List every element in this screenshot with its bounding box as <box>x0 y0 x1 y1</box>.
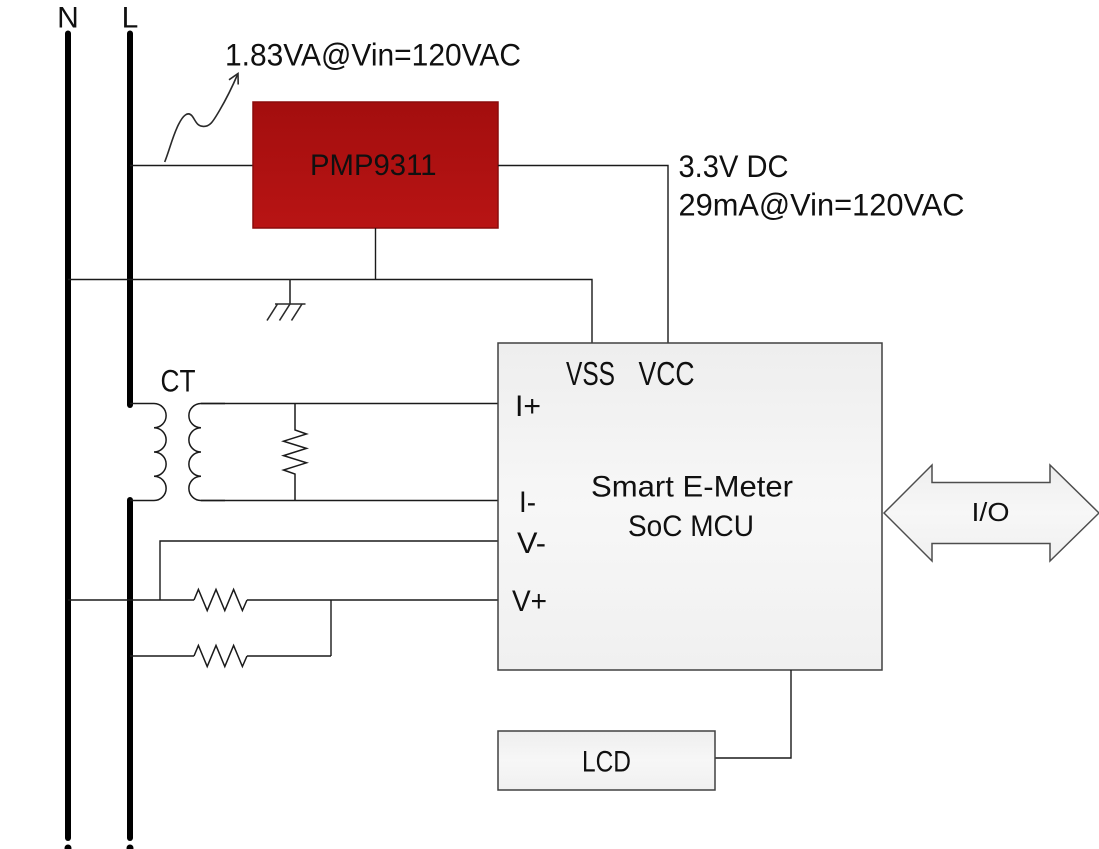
svg-text:LCD: LCD <box>582 746 631 779</box>
wire secondary to I+ <box>201 403 498 405</box>
svg-text:SoC MCU: SoC MCU <box>628 510 754 543</box>
transformer CT primary winding <box>130 404 166 501</box>
resistor R2 divider (horizontal) <box>194 646 247 667</box>
wire secondary to I- <box>201 500 498 502</box>
svg-text:I/O: I/O <box>972 499 1010 527</box>
wire N to divider <box>68 599 194 601</box>
block LCD <box>498 731 715 790</box>
node L <box>122 2 139 849</box>
wire L to R2 <box>130 655 194 657</box>
svg-text:CT: CT <box>161 363 196 399</box>
resistor R burden (vertical) <box>284 404 307 501</box>
I/O bus arrow <box>884 465 1099 561</box>
svg-text:I+: I+ <box>515 390 541 423</box>
svg-text:PMP9311: PMP9311 <box>310 149 437 182</box>
wire R1 to V+ <box>247 599 498 601</box>
svg-text:3.3V DC: 3.3V DC <box>679 148 789 184</box>
wire divider junction <box>330 600 332 656</box>
resistor R1 divider (horizontal) <box>194 590 247 611</box>
svg-text:N: N <box>57 2 79 35</box>
IC U1 Smart E-Meter SoC MCU <box>498 343 882 670</box>
svg-text:29mA@Vin=120VAC: 29mA@Vin=120VAC <box>679 187 965 223</box>
svg-text:1.83VA@Vin=120VAC: 1.83VA@Vin=120VAC <box>225 37 521 73</box>
svg-text:I-: I- <box>519 486 536 519</box>
svg-text:Smart E-Meter: Smart E-Meter <box>591 471 793 504</box>
wire SoC to LCD <box>715 670 791 758</box>
svg-text:V+: V+ <box>512 585 547 618</box>
wire V- sense <box>160 541 498 600</box>
wire L to PMP9311 input <box>130 165 253 167</box>
svg-text:L: L <box>122 2 139 35</box>
node N <box>57 2 79 849</box>
ground <box>267 280 306 321</box>
svg-text:VSS: VSS <box>566 356 615 393</box>
power module PMP9311 <box>253 102 498 228</box>
label 3.3V DC 29mA <box>679 148 965 223</box>
wire PMP9311 return to ground rail <box>375 228 377 280</box>
wire PMP9311 output to VCC <box>498 166 668 344</box>
annotation arrow to 1.83VA label <box>165 74 239 163</box>
svg-text:VCC: VCC <box>639 356 695 393</box>
transformer CT secondary winding <box>189 404 225 501</box>
wire R2 to junction <box>247 655 331 657</box>
svg-text:V-: V- <box>517 527 546 560</box>
wire N to VSS <box>68 280 592 344</box>
